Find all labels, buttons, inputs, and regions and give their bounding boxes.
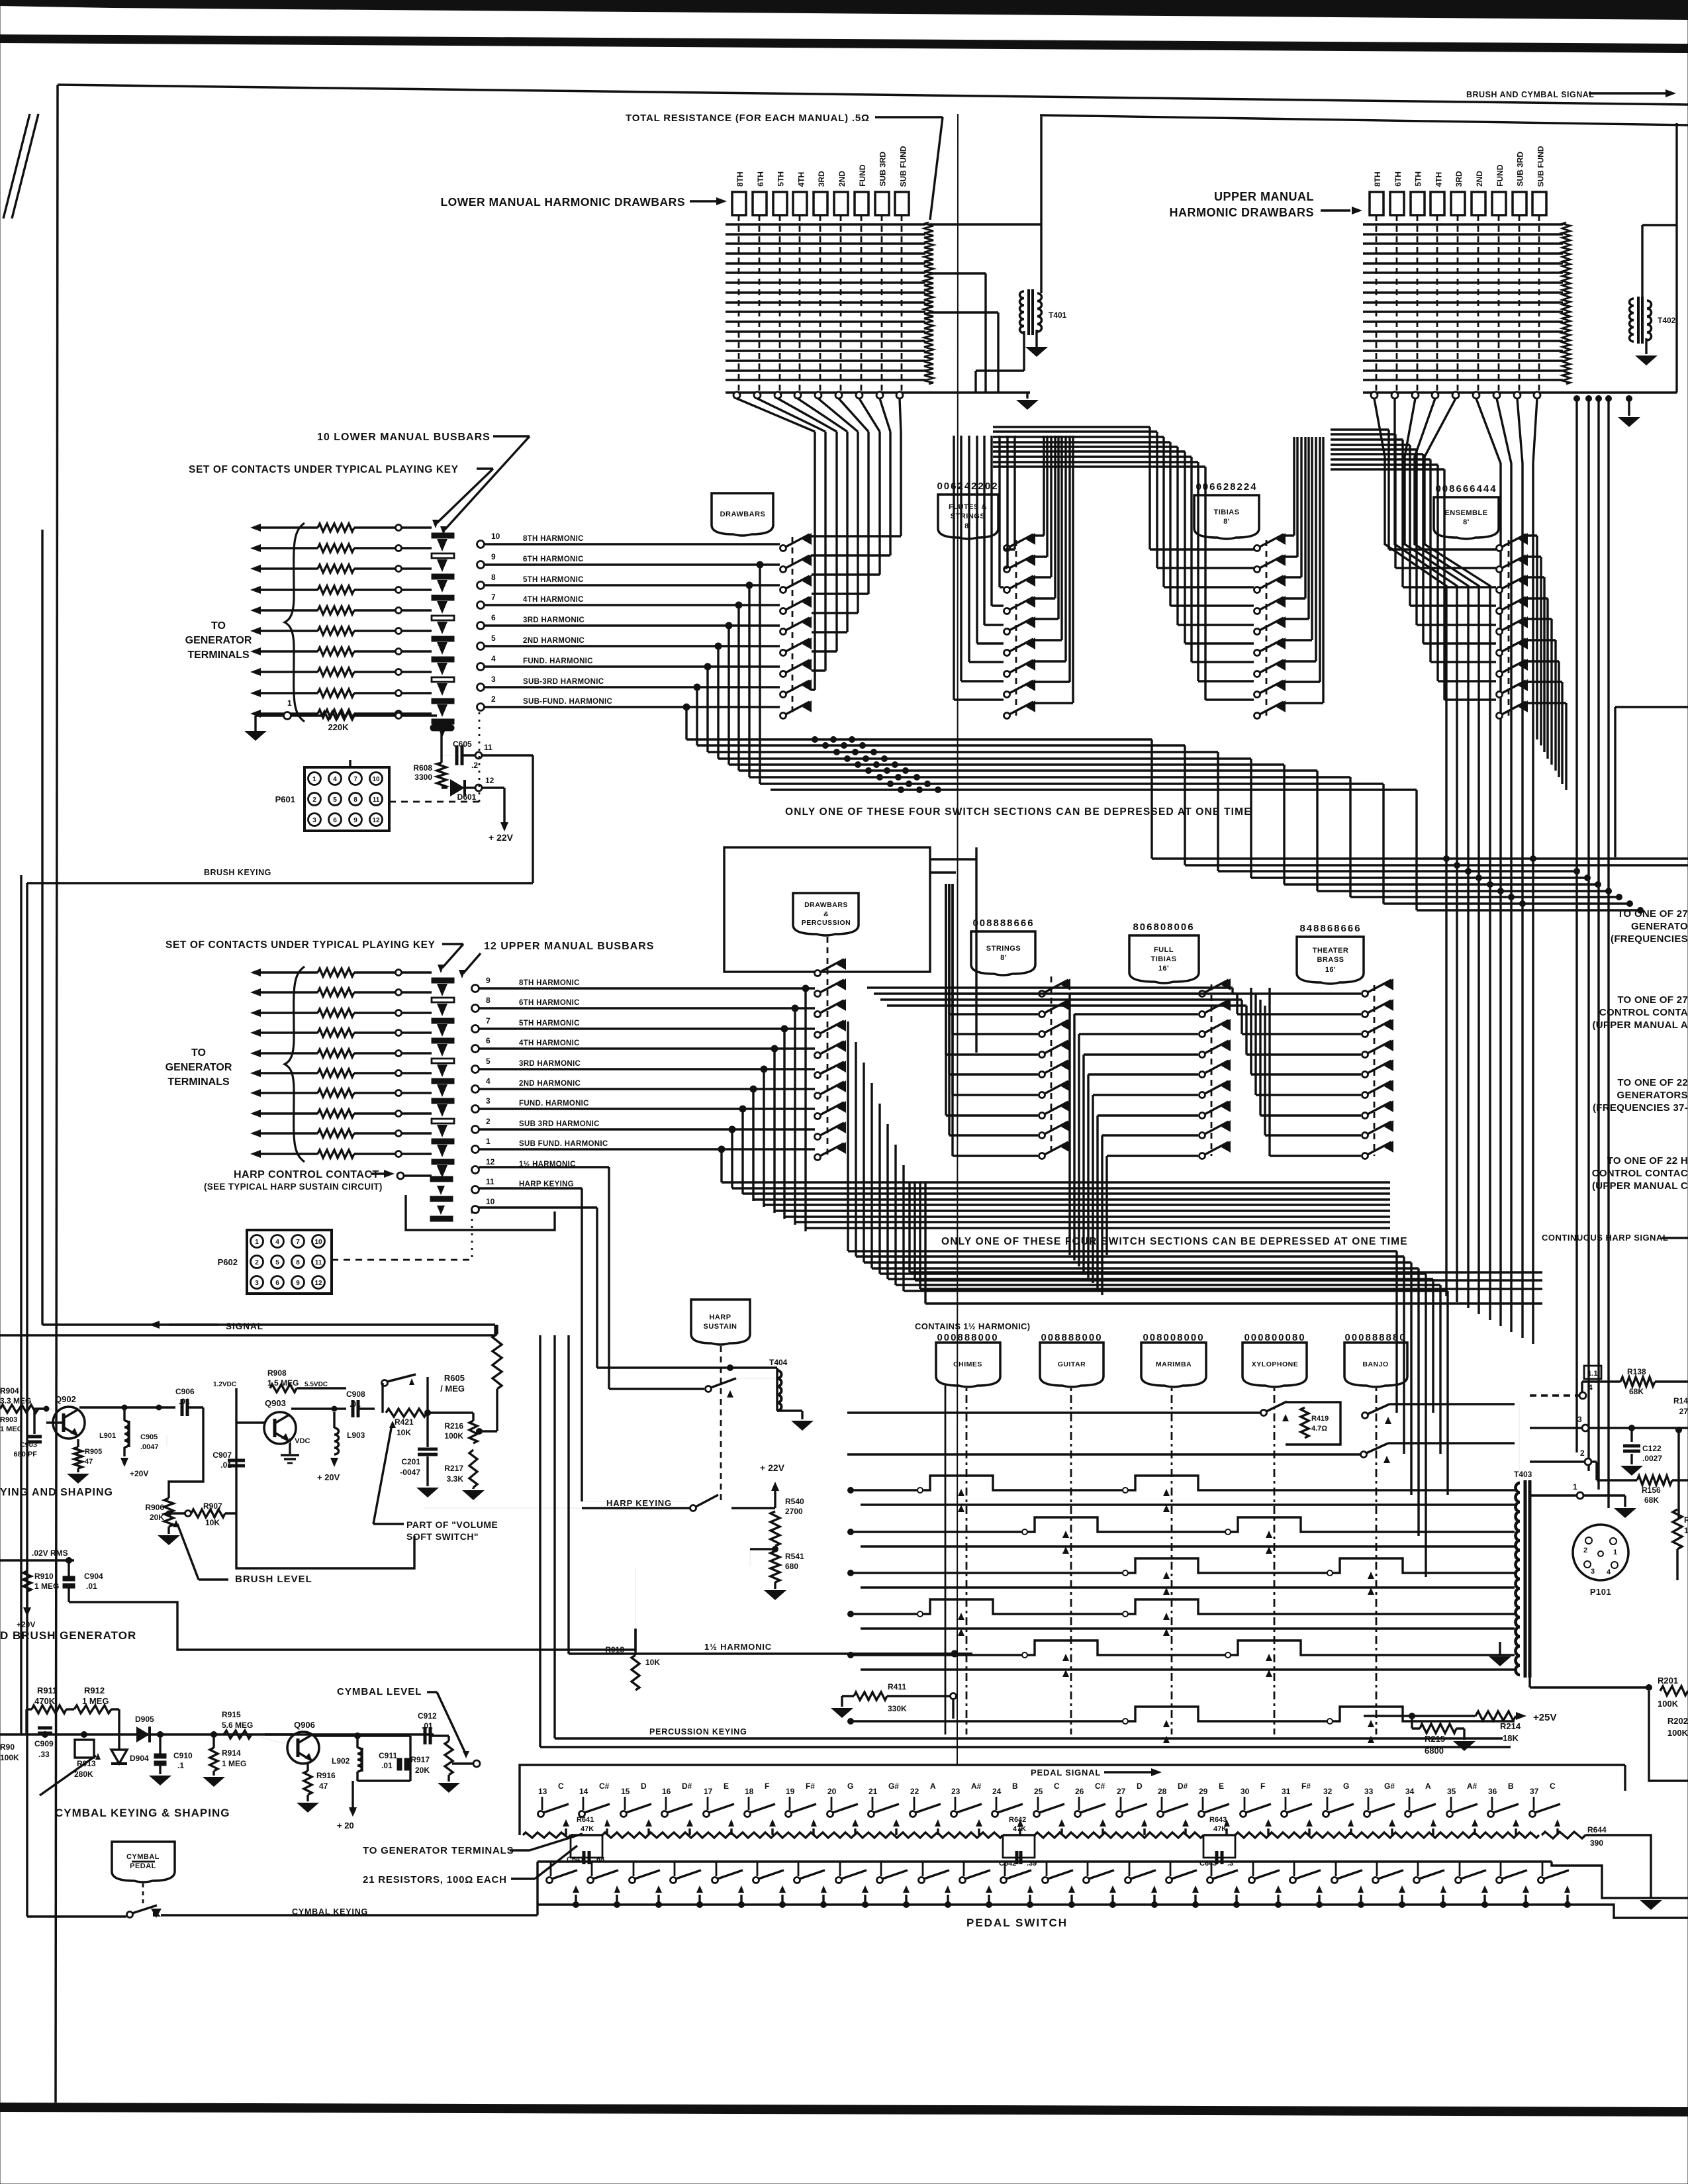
wire: upper-manual-busbar key contact row 3 — [250, 1009, 261, 1017]
svg-text:TO: TO — [191, 1047, 206, 1059]
sheet joint line — [957, 114, 958, 1765]
resistor 220K — [322, 712, 354, 720]
busbar segment upper-manual-busbar 2 — [432, 998, 454, 1002]
wire: ensemble feed 8 — [1436, 465, 1438, 681]
svg-text:32: 32 — [1323, 1787, 1333, 1796]
svg-text:PEDAL: PEDAL — [130, 1862, 156, 1870]
resistor R540 2700 — [774, 1508, 776, 1516]
svg-text:L902: L902 — [332, 1756, 350, 1766]
svg-text:3300: 3300 — [414, 773, 432, 782]
svg-text:CONTROL CONTAC: CONTROL CONTAC — [1592, 1168, 1688, 1179]
node terminal 3 — [477, 684, 485, 691]
wire: upper fan 1 — [1374, 399, 1446, 1296]
wire: step row 5 lower — [861, 1668, 1515, 1670]
svg-text:G: G — [847, 1781, 853, 1791]
brace upper ladder — [285, 967, 305, 1162]
switch drawbars-percussion contact 2 — [815, 991, 821, 997]
wire: drop to percussion bundle 8 — [731, 1129, 733, 1188]
node terminal 10 — [472, 1206, 479, 1213]
wire: ensemble dashed stem — [1508, 540, 1510, 716]
svg-text:1: 1 — [312, 776, 316, 783]
cymbal pedal tablet — [112, 1842, 175, 1882]
svg-text:R156: R156 — [1642, 1486, 1661, 1495]
wire: output bundle 9 — [771, 788, 1417, 790]
wire: right exit y1068 — [1615, 706, 1688, 708]
wire: ensemble feed 4 — [1409, 445, 1411, 606]
svg-text:(SEE TYPICAL HARP SUSTAIN CIR: (SEE TYPICAL HARP SUSTAIN CIRCUIT) — [204, 1182, 383, 1192]
svg-text:(FREQUENCIES 37-: (FREQUENCIES 37- — [1593, 1102, 1688, 1114]
svg-text:21 RESISTORS, 100Ω EACH: 21 RESISTORS, 100Ω EACH — [363, 1874, 507, 1885]
svg-text:D: D — [641, 1781, 647, 1791]
svg-text:TIBIAS: TIBIAS — [1150, 955, 1176, 963]
resistor lower-manual-busbar row 8 — [318, 668, 354, 676]
wire: cymbal rail — [0, 1733, 434, 1735]
svg-text:+20V: +20V — [17, 1620, 35, 1629]
switch pedal upper 34 — [1405, 1811, 1411, 1817]
wire: dp blade drop 6 — [886, 1124, 888, 1279]
wire: bus drop 3 — [1597, 399, 1599, 1490]
switch pedal lower 17 — [712, 1877, 718, 1883]
svg-text:1: 1 — [255, 1239, 259, 1246]
svg-text:HARP: HARP — [709, 1313, 731, 1321]
wire: tibias feed 4 — [1169, 442, 1171, 606]
svg-text:3.3 MEG: 3.3 MEG — [0, 1396, 31, 1405]
svg-text:18K: 18K — [1503, 1733, 1519, 1743]
svg-text:CHIMES: CHIMES — [953, 1360, 982, 1368]
node terminal 11 — [472, 1186, 479, 1194]
svg-text:3: 3 — [491, 675, 496, 684]
wire: fs feed 1 — [953, 436, 955, 700]
wire: busbar ground row — [244, 731, 267, 741]
node terminal 2 — [472, 1126, 479, 1133]
upper-manual mesh bottom bus — [1363, 391, 1566, 394]
svg-text:E: E — [1219, 1781, 1224, 1791]
resistor R217 3.3K — [469, 1450, 477, 1488]
switch pedal lower 35 — [1456, 1877, 1462, 1883]
svg-text:19: 19 — [786, 1787, 795, 1796]
flutes-strings output risers — [1033, 534, 1044, 536]
svg-text:FUND: FUND — [1495, 164, 1505, 187]
svg-text:8: 8 — [491, 573, 496, 582]
busbar segment upper-manual-busbar 7 — [432, 1098, 454, 1104]
wire: drop to percussion bundle 1 — [804, 988, 806, 1231]
svg-text:18: 18 — [745, 1787, 754, 1796]
diode D904 — [118, 1734, 120, 1750]
bottom border bar — [0, 2103, 1688, 2116]
svg-text:A#: A# — [971, 1781, 982, 1791]
resistor right edge 1.5 — [1677, 1430, 1679, 1519]
svg-text:2700: 2700 — [785, 1507, 803, 1516]
switch pedal upper 22 — [910, 1811, 916, 1817]
wire: upper-manual drawbar 6 dashed drop — [1477, 215, 1479, 391]
switch tablet ensemble — [1434, 497, 1499, 539]
svg-text:470K: 470K — [34, 1696, 56, 1706]
wire: lower fan 1 — [737, 399, 815, 432]
wire: lower bus extension — [929, 391, 1030, 394]
svg-text:12: 12 — [314, 1280, 322, 1287]
resistor upper-manual-busbar row 10 — [318, 1150, 354, 1158]
node 12 — [475, 784, 482, 791]
pedal switch lower row — [550, 1862, 552, 1876]
svg-text:1 MEG: 1 MEG — [0, 1425, 23, 1433]
wire: harmonic line 8 — [485, 584, 780, 586]
wire: harmonic line 7 — [485, 604, 780, 606]
wire: GUITAR stem dash-dot — [1070, 1388, 1072, 1734]
svg-text:TO ONE OF 27: TO ONE OF 27 — [1617, 908, 1688, 920]
svg-text:29: 29 — [1199, 1787, 1208, 1796]
switch strings contact 3 — [1039, 1031, 1045, 1037]
wire: lower fan 6 — [839, 399, 868, 432]
wire: ensemble out 2 — [1540, 557, 1542, 745]
svg-text:TO: TO — [211, 620, 226, 632]
svg-text:(UPPER MANUAL A: (UPPER MANUAL A — [1592, 1020, 1688, 1031]
wire: flutes-strings dashed stem — [1015, 540, 1017, 716]
switch drawbars-percussion contact 8 — [815, 1114, 821, 1119]
wire: percussion bundle lower 1 — [722, 1181, 1390, 1183]
wire: row 10 — [478, 1206, 597, 1208]
svg-text:.1: .1 — [177, 1761, 184, 1770]
svg-text:16': 16' — [1325, 966, 1336, 974]
svg-text:27: 27 — [1117, 1787, 1126, 1796]
wire: fs feed 8 — [1006, 436, 1008, 568]
resistor R215 6800 — [1409, 1713, 1415, 1719]
wire: upper fan 8 — [1517, 399, 1523, 1338]
switch pedal lower 21 — [877, 1877, 883, 1883]
switch drawbars contact 1 — [780, 546, 786, 551]
svg-text:P602: P602 — [218, 1257, 238, 1267]
busbar segment lower-manual-busbar 1 — [432, 533, 454, 538]
svg-text:.0027: .0027 — [1642, 1454, 1662, 1463]
svg-text:.01: .01 — [86, 1582, 97, 1591]
svg-text:47K: 47K — [1213, 1825, 1227, 1833]
wire: bus riser to T401 — [974, 371, 976, 393]
svg-text:SIGNAL: SIGNAL — [226, 1321, 263, 1331]
svg-text:Q906: Q906 — [294, 1720, 315, 1730]
svg-text:2: 2 — [486, 1117, 491, 1126]
switch pedal lower 32 — [1332, 1877, 1338, 1883]
svg-text:F: F — [765, 1781, 769, 1791]
svg-text:C906: C906 — [175, 1387, 195, 1396]
switch theater-brass contact 7 — [1362, 1113, 1368, 1119]
svg-text:C122: C122 — [1642, 1444, 1662, 1453]
busbar segment lower-manual-busbar 7 — [432, 657, 454, 662]
wire: ensemble feed 6 — [1422, 454, 1424, 643]
wire: lower fan 4 — [798, 399, 847, 432]
drawbars-percussion enclosure box — [724, 847, 930, 972]
switch pedal upper 27 — [1117, 1811, 1123, 1817]
node terminal 8 — [472, 1005, 479, 1012]
switch tibias contact 8 — [1254, 692, 1260, 698]
resistor lower-manual-busbar row 9 — [318, 689, 354, 697]
svg-text:FUND. HARMONIC: FUND. HARMONIC — [519, 1100, 589, 1108]
wire: tibias feed 2 — [1156, 432, 1158, 568]
wire: upper harmonic line 2 — [479, 1128, 815, 1130]
svg-text:P101: P101 — [1590, 1587, 1611, 1597]
svg-text:+25V: +25V — [1533, 1712, 1556, 1723]
svg-text:11: 11 — [484, 743, 492, 752]
wire: box r201 — [1649, 1691, 1688, 1781]
wire: to generator exit 2 — [1185, 864, 1688, 866]
wire: drop to output bundle 3 — [748, 585, 750, 777]
svg-text:R14: R14 — [1673, 1396, 1688, 1405]
svg-text:R217: R217 — [444, 1464, 463, 1473]
svg-text:R906: R906 — [145, 1503, 164, 1512]
wire: upper-manual-busbar key contact row 8 — [250, 1110, 261, 1117]
svg-text:GENERATORS: GENERATORS — [1617, 1090, 1688, 1101]
svg-text:.0047: .0047 — [140, 1443, 159, 1451]
svg-text:R201: R201 — [1658, 1676, 1678, 1685]
svg-text:BRUSH AND CYMBAL SIGNAL: BRUSH AND CYMBAL SIGNAL — [1466, 90, 1594, 99]
svg-text:8TH: 8TH — [1373, 171, 1382, 187]
switch pedal upper 35 — [1447, 1811, 1453, 1817]
svg-text:A: A — [930, 1781, 936, 1791]
switch pedal lower 24 — [1001, 1877, 1007, 1883]
switch tablet tibias — [1194, 495, 1259, 539]
wire: output bundle 2 — [697, 744, 1185, 746]
wire: feed drawbars-switch row 4 — [812, 593, 868, 594]
wire: percussion bundle 1 — [848, 1250, 1397, 1252]
transformer T402 — [1630, 299, 1634, 342]
wire: lower-manual-busbar key contact row 1 — [250, 524, 261, 532]
ground R215 — [1453, 1741, 1476, 1751]
svg-text:C: C — [1550, 1781, 1556, 1791]
svg-text:.2: .2 — [471, 761, 478, 770]
svg-text:3: 3 — [255, 1280, 259, 1287]
node terminal 1 — [472, 1146, 479, 1153]
wire: percussion bundle lower 9 — [806, 1227, 1390, 1229]
resistor R138 68K — [1581, 1382, 1583, 1392]
svg-text:2: 2 — [312, 796, 316, 804]
switch drawbars contact 2 — [780, 567, 786, 573]
percussion tablet XYLOPHONE — [1243, 1343, 1307, 1387]
resistor R421 10K — [386, 1409, 427, 1417]
wire: percussion step row 1 — [851, 1476, 1515, 1490]
wire: q903 emitter gnd — [289, 1443, 291, 1454]
upper-manual mesh resistance wire zigzag — [1562, 222, 1570, 384]
switch full-tibias contact 6 — [1199, 1092, 1205, 1098]
ground T404 — [791, 1421, 814, 1431]
svg-text:8': 8' — [1223, 518, 1230, 526]
wire: percussion bundle 8 — [904, 1290, 1448, 1292]
svg-text:16': 16' — [1158, 965, 1169, 973]
wire: tibias16 out 3 — [1078, 1034, 1080, 1266]
node terminal 6 — [472, 1045, 479, 1053]
resistor upper-manual-busbar row 1 — [318, 969, 354, 976]
diode D601 — [442, 786, 447, 788]
svg-text:10 LOWER MANUAL BUSBARS: 10 LOWER MANUAL BUSBARS — [317, 432, 491, 443]
svg-text:4: 4 — [1588, 1383, 1593, 1392]
node terminal 12 — [472, 1166, 479, 1174]
wire: upper-manual drawbar 7 dashed drop — [1498, 215, 1500, 391]
svg-text:R907: R907 — [203, 1501, 222, 1511]
wire: ensemble feed 3 — [1401, 440, 1403, 587]
wire: brass feed 7 — [1259, 1000, 1261, 1116]
svg-text:SET OF CONTACTS UNDER TYPI: SET OF CONTACTS UNDER TYPICAL PLAYING KE… — [165, 939, 436, 951]
svg-text:6: 6 — [333, 817, 337, 824]
wire: lower-manual-busbar key contact row 6 — [250, 627, 261, 635]
switch full-tibias contact 7 — [1199, 1113, 1205, 1119]
wire: upper harmonic line 1 — [479, 1148, 815, 1150]
svg-text:HARP CONTROL CONTACT: HARP CONTROL CONTACT — [234, 1169, 379, 1180]
svg-text:CONTINUOUS HARP SIGNAL: CONTINUOUS HARP SIGNAL — [1542, 1233, 1668, 1243]
svg-text:5TH HARMONIC: 5TH HARMONIC — [519, 1020, 580, 1027]
wire: upper fan 6 — [1476, 399, 1501, 1326]
svg-text:D601: D601 — [457, 792, 477, 802]
wire: harmonic line 5 — [485, 645, 780, 647]
wire: tibias16 out 9 — [1105, 1156, 1107, 1255]
svg-text:4TH: 4TH — [1434, 172, 1443, 187]
resistor lower-manual-busbar row 5 — [318, 606, 354, 614]
wire: percussion bundle 6 — [888, 1278, 1433, 1280]
wire: upper-manual drawbar 8 dashed drop — [1519, 215, 1521, 391]
wire: dp blade drop 2 — [855, 1042, 857, 1257]
svg-text:R202: R202 — [1667, 1716, 1688, 1726]
wire: left rail 2 — [20, 875, 22, 1734]
svg-text:14: 14 — [579, 1787, 588, 1796]
svg-text:4TH HARMONIC: 4TH HARMONIC — [523, 596, 584, 604]
svg-text:.33: .33 — [38, 1750, 50, 1759]
svg-text:26: 26 — [1075, 1787, 1084, 1796]
resistor lower-manual-busbar row 7 — [318, 647, 354, 655]
svg-text:3: 3 — [312, 817, 316, 824]
svg-text:2ND: 2ND — [1475, 171, 1484, 187]
svg-text:22: 22 — [910, 1787, 919, 1796]
svg-text:+ 22V: + 22V — [489, 832, 514, 843]
svg-text:Q902: Q902 — [55, 1394, 76, 1404]
switch ensemble contact 3 — [1497, 587, 1503, 593]
wire: output bundle 3 — [708, 751, 1218, 753]
wire: drop to percussion bundle 9 — [720, 1149, 722, 1182]
resistor upper-manual-busbar row 6 — [318, 1069, 354, 1077]
svg-text:848868666: 848868666 — [1299, 923, 1361, 934]
wire: lower fan 9 — [900, 399, 901, 432]
switch strings contact 4 — [1039, 1052, 1045, 1058]
switch strings contact 7 — [1039, 1113, 1045, 1119]
wire: percussion bundle lower 2 — [732, 1187, 1390, 1189]
svg-text:MARIMBA: MARIMBA — [1156, 1360, 1192, 1368]
wire: percussion bundle 3 — [864, 1261, 1411, 1263]
wire: brush gen link — [69, 1602, 635, 1650]
switch flutes-strings contact 3 — [1004, 587, 1010, 593]
svg-text:28: 28 — [1158, 1787, 1167, 1796]
wire: +22V harp feed — [731, 1507, 775, 1509]
resistor upper-manual-busbar row 9 — [318, 1129, 354, 1137]
wire: step row 3 lower — [861, 1586, 1515, 1588]
wire: percussion step row 3 — [851, 1558, 1515, 1573]
wire: percussion step row 2 — [851, 1517, 1515, 1532]
cymbal pedal switch — [127, 1912, 133, 1918]
svg-text:T403: T403 — [1514, 1470, 1532, 1479]
wire: drop to percussion bundle 2 — [794, 1008, 796, 1225]
wire: dp blade drop 3 — [863, 1063, 865, 1262]
node terminal 4 — [472, 1086, 479, 1093]
capacitor C910 .1 — [159, 1734, 161, 1754]
switch pedal lower 18 — [753, 1877, 759, 1883]
switch drawbars-percussion contact 10 — [815, 1155, 821, 1161]
switch pedal upper 29 — [1199, 1811, 1205, 1817]
svg-text:L903: L903 — [347, 1431, 365, 1440]
resistor R917 20K — [445, 1741, 453, 1775]
wire: harmonic line 2 — [485, 706, 780, 708]
wire: drop to percussion bundle 4 — [773, 1049, 775, 1213]
svg-text:4.7Ω: 4.7Ω — [1311, 1425, 1327, 1433]
switch theater-brass contact 8 — [1362, 1133, 1368, 1139]
svg-text:R911: R911 — [37, 1685, 57, 1695]
wire: lower-manual-busbar key contact row 8 — [250, 668, 261, 676]
wire: lower mesh tap3 — [929, 311, 998, 313]
svg-text:SUB FUND: SUB FUND — [1536, 146, 1545, 187]
wire: feed drawbars-switch row 6 — [812, 631, 847, 633]
svg-text:D BRUSH GENERATOR: D BRUSH GENERATOR — [0, 1629, 136, 1642]
wire: ensemble out 6 — [1554, 640, 1556, 771]
svg-text:2: 2 — [255, 1259, 259, 1266]
wire: tibias16 out 8 — [1101, 1135, 1103, 1295]
wire: percussion row chimes signal — [847, 1411, 1260, 1413]
wire: percussion bundle 2 — [856, 1255, 1404, 1257]
wire: ensemble feed 9 — [1443, 469, 1445, 700]
wire: q902 collector rail — [77, 1406, 79, 1409]
resistor R644 390 — [1542, 1832, 1585, 1838]
svg-text:PART OF "VOLUME: PART OF "VOLUME — [406, 1519, 498, 1530]
svg-text:(FREQUENCIES: (FREQUENCIES — [1611, 933, 1688, 945]
svg-text:ONLY ONE OF THESE FOUR SW: ONLY ONE OF THESE FOUR SWITCH SECTIONS C… — [785, 806, 1252, 818]
svg-text:R905: R905 — [85, 1448, 102, 1456]
wire: theater-brass dashed stem — [1374, 985, 1376, 1156]
switch drawbars contact 5 — [780, 629, 786, 635]
svg-text:CYMBAL KEYING & SHAPING: CYMBAL KEYING & SHAPING — [55, 1807, 230, 1819]
wire: q903 collector — [291, 1407, 346, 1409]
wire: lower-manual-busbar key contact row 3 — [250, 565, 261, 573]
switch full-tibias contact 3 — [1199, 1031, 1205, 1037]
svg-text:5: 5 — [486, 1057, 491, 1066]
wire: output bundle 1 — [686, 738, 1152, 740]
svg-text:C201: C201 — [401, 1457, 420, 1466]
wire: bundle bottom 3 — [920, 1288, 1542, 1290]
svg-text:6TH: 6TH — [1393, 171, 1403, 187]
svg-text:47: 47 — [319, 1781, 328, 1791]
switch drawbars contact 4 — [780, 608, 786, 614]
svg-text:68K: 68K — [1629, 1387, 1644, 1396]
wire: ensemble out 5 — [1550, 619, 1552, 765]
svg-text:R90: R90 — [0, 1742, 15, 1752]
switch ensemble contact 5 — [1497, 629, 1503, 635]
busbar segment lower-manual-busbar 5 — [432, 616, 454, 620]
node terminal 6 — [477, 622, 485, 630]
svg-text:1 MEG: 1 MEG — [34, 1582, 59, 1591]
switch theater-brass contact 3 — [1362, 1031, 1368, 1037]
wire: q903 stage box — [236, 1388, 414, 1568]
svg-text:8TH HARMONIC: 8TH HARMONIC — [519, 979, 580, 987]
wire: signal rail — [42, 1323, 495, 1325]
switch tablet flutes-strings — [938, 495, 998, 539]
svg-text:+20V: +20V — [130, 1469, 148, 1478]
switch flutes-strings contact 4 — [1004, 608, 1010, 614]
switch pedal lower 34 — [1414, 1877, 1420, 1883]
svg-text:1½ HARMONIC: 1½ HARMONIC — [704, 1642, 772, 1652]
switch pedal upper 33 — [1364, 1811, 1370, 1817]
switch theater-brass contact 9 — [1362, 1153, 1368, 1159]
switch tibias contact 7 — [1254, 671, 1260, 677]
lower-manual mesh output terminals — [733, 392, 740, 399]
svg-text:006242202: 006242202 — [937, 481, 998, 492]
ground percussion right — [1499, 1642, 1501, 1655]
resistor R918 10K — [632, 1655, 639, 1690]
svg-text:CYMBAL LEVEL: CYMBAL LEVEL — [337, 1686, 422, 1697]
svg-text:27: 27 — [1679, 1407, 1688, 1416]
svg-text:SUSTAIN: SUSTAIN — [704, 1323, 737, 1331]
resistor R214 18K — [1476, 1711, 1516, 1721]
switch ensemble contact 2 — [1497, 567, 1503, 573]
